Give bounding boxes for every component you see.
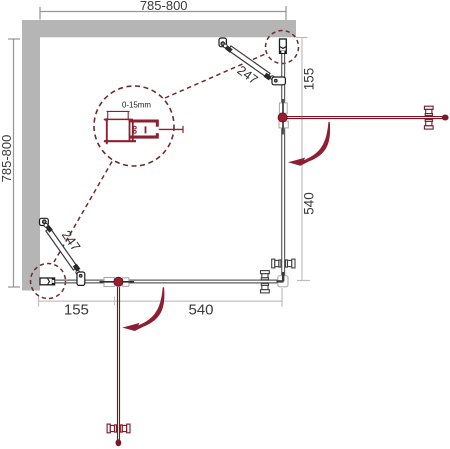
right dim top tick [296,37,308,39]
svg-text:540: 540 [302,192,317,215]
wall (L-shaped top and left band) [22,20,296,291]
profile detail: wall profile box (maroon) [104,118,136,144]
dimension 785-800 top: left tick [39,7,41,20]
corner post [278,276,288,287]
open door bottom (red double line) [117,287,119,441]
hinge housing above right pivot [279,103,287,113]
support bar bottom-left: end circles [44,223,48,227]
svg-text:155: 155 [64,302,89,319]
dimension extension line right (155/540) [301,38,303,281]
support bar bottom-left: wall clamp [40,218,49,225]
detail leader dashed line to top-right hinge [165,54,267,99]
right door handle (red knob) [424,106,433,129]
hinge housing left of bottom pivot [104,278,114,287]
right dim bottom tick [297,280,310,282]
dimension 785-800 left: line [13,39,15,287]
open door right (red double line) [287,116,443,118]
bottom door handle (red knob) [107,424,130,433]
wall bracket bottom-left (in circle) [40,278,55,285]
right door glass dark line at hinge [282,99,284,135]
hinge detail circle top-right (dashed) [266,31,299,64]
dimension 785-800 left: bottom tick [8,286,20,288]
swing arrow bottom door [122,287,164,331]
hinge housing right of bottom pivot [123,278,129,287]
detail leader dashed line to bottom-left bracket [54,162,112,263]
support bar top-right: dark joint near panel [264,73,272,81]
bottom dim left tick [38,296,40,307]
svg-text:785-800: 785-800 [140,0,188,13]
profile detail: glass end tick [182,126,184,133]
dimension extension line bottom (155/540) [39,300,283,302]
support bar bottom-left: dark joint near wall [46,225,53,233]
support bar top-right: dark joint near wall [225,46,233,53]
svg-text:540: 540 [188,302,213,319]
dimension 785-800 top: right tick [285,6,287,20]
svg-text:155: 155 [302,68,317,91]
bottom dim mid tick [114,297,116,306]
wall bracket top-right (in circle) [280,39,287,54]
profile detail: screw dots [133,126,136,129]
support bar top-right: panel clamp [272,77,285,85]
support bar bottom-left: panel clamp [77,272,85,285]
hinge housing below right pivot [279,121,288,128]
closed-door handle on right panel (gray knob) [272,259,295,268]
profile detail: glass line [159,128,183,130]
bottom pivot dot [114,277,123,286]
bracket detail circle bottom-left (dashed) [31,264,66,299]
detail circle (big, dashed) [94,86,174,166]
swing arrow right door [288,122,330,166]
right fixed panel + closed door (double line) [281,40,283,277]
dimension 785-800 top: line [40,11,286,13]
support bar top-right: end circles [223,44,227,48]
support bar top-right: wall bolt [220,41,225,46]
bottom door glass dark line at hinge [100,281,135,283]
support bar bottom-left: bar body [46,228,78,270]
right pivot dot [278,113,287,122]
support bar bottom-left: dark joint near panel [73,264,81,272]
corner dark joint vertical [282,272,284,281]
support bar bottom-left: wall bolt [42,219,47,224]
closed-door handle on bottom panel (gray knob) [261,271,270,293]
bottom door end ball [116,439,122,446]
support bar top-right: wall clamp [219,38,226,47]
svg-text:785-800: 785-800 [0,135,14,183]
profile detail: door profile channel (maroon) [130,120,159,139]
profile detail: 0-15mm dimension lines [107,110,130,112]
right door end ball [442,115,449,121]
bottom fixed panel + closed door (double line) [42,279,278,281]
corner dark joint horizontal [277,280,284,282]
bottom dim right tick [281,288,283,307]
svg-text:0-15mm: 0-15mm [122,101,151,110]
support bar top-right: bar body [228,46,270,78]
dimension 785-800 left: top tick [8,38,20,40]
